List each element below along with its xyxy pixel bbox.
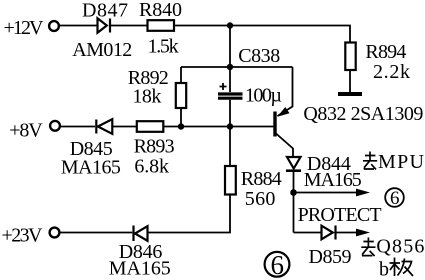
diode D847: [98, 18, 111, 33]
wire: [148, 195, 230, 233]
svg-text:560: 560: [245, 188, 276, 210]
svg-text:100µ: 100µ: [245, 85, 282, 107]
label ji (Chinese ji = pole): [390, 258, 414, 277]
wire emitter lead: [278, 67, 293, 116]
svg-text:R884: R884: [241, 168, 282, 190]
svg-text:MA165: MA165: [304, 169, 362, 191]
wire: [180, 67, 182, 83]
label qu Q856 (Chinese qu): [361, 238, 375, 257]
wire: [174, 26, 350, 43]
svg-text:2.2k: 2.2k: [373, 61, 410, 83]
resistor R894: [345, 43, 355, 71]
diode D859: [322, 226, 336, 240]
label qu MPU (Chinese qu): [363, 152, 377, 170]
wire: [181, 66, 293, 68]
svg-text:MA165: MA165: [109, 258, 171, 280]
terminal +23V: [50, 228, 60, 238]
terminal +8V: [50, 121, 60, 131]
wire: [349, 70, 351, 93]
ground: [338, 92, 362, 96]
svg-text:D847: D847: [82, 0, 128, 21]
resistor R893: [137, 121, 164, 132]
svg-text:AM012: AM012: [72, 39, 132, 61]
wire: [111, 25, 147, 27]
wire arrow to Q856: [337, 232, 358, 234]
svg-text:b: b: [379, 258, 389, 280]
svg-text:6: 6: [390, 188, 400, 209]
emitter arrow of Q832: [277, 107, 289, 117]
svg-text:R894: R894: [365, 41, 406, 63]
svg-text:6: 6: [271, 250, 285, 280]
svg-text:+23V: +23V: [2, 225, 44, 247]
diode D844: [286, 157, 301, 171]
wire: [180, 108, 182, 127]
node circled 6 top: [385, 188, 404, 209]
svg-text:PROTECT: PROTECT: [298, 204, 382, 226]
svg-text:D859: D859: [309, 246, 352, 268]
node junction C838 bottom: [227, 123, 233, 129]
node circled 6 bottom: [265, 250, 290, 280]
resistor R884: [225, 166, 236, 195]
terminal +12V: [49, 21, 59, 31]
capacitor C838: [218, 67, 243, 127]
node junction R892: [178, 123, 184, 129]
wire collector lead: [276, 134, 293, 158]
svg-text:18k: 18k: [132, 86, 161, 108]
svg-text:R840: R840: [139, 0, 182, 21]
svg-text:6.8k: 6.8k: [134, 156, 169, 178]
diode D846: [134, 226, 148, 242]
svg-text:1.5k: 1.5k: [148, 36, 179, 58]
transistor Q832 bar: [273, 112, 276, 137]
wire: [293, 172, 295, 233]
svg-text:+8V: +8V: [9, 120, 43, 142]
svg-text:Q856: Q856: [376, 236, 424, 258]
node junction C838 top: [227, 64, 233, 70]
svg-text:C838: C838: [238, 45, 280, 67]
wire: [60, 25, 97, 27]
resistor R892: [176, 83, 186, 108]
wire: [60, 232, 132, 234]
svg-text:MPU: MPU: [378, 151, 425, 173]
wire: [112, 126, 136, 128]
wire: [60, 126, 95, 128]
wire base: [164, 126, 274, 128]
resistor R840: [148, 20, 175, 31]
svg-text:+12V: +12V: [4, 17, 45, 39]
node junction protect: [290, 189, 297, 196]
diode D845: [96, 119, 112, 134]
svg-text:R893: R893: [134, 136, 175, 158]
wire: [229, 127, 231, 167]
wire: [229, 26, 231, 68]
wire arrow to MPU: [294, 192, 358, 194]
node junction top: [227, 22, 233, 28]
svg-text:Q832 2SA1309: Q832 2SA1309: [303, 103, 423, 125]
wire: [294, 232, 322, 234]
svg-text:MA165: MA165: [61, 156, 121, 178]
